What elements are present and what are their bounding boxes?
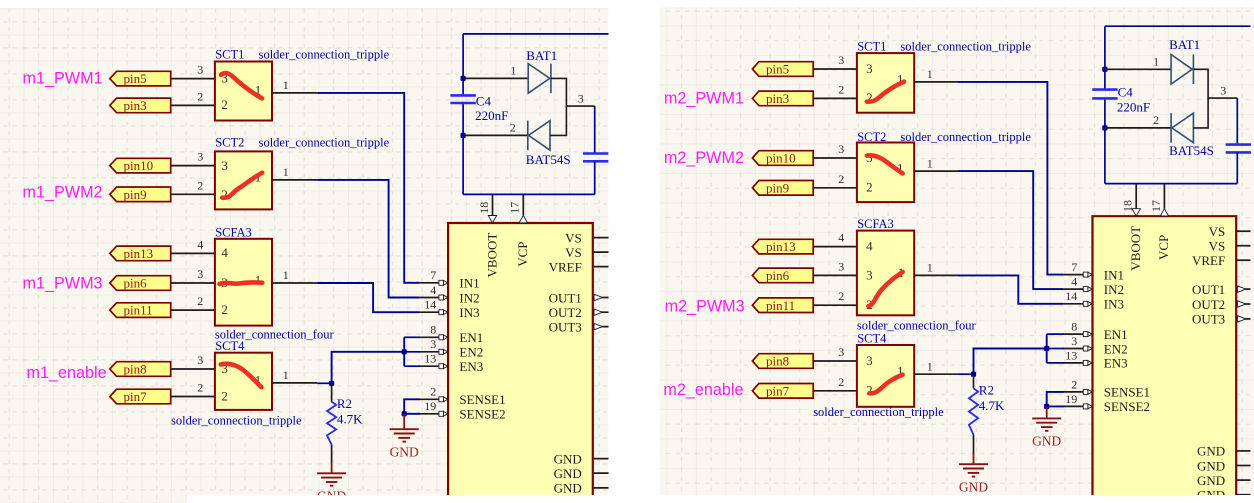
svg-text:R2: R2 [979, 383, 994, 398]
screenshot crop mask bottom right [660, 495, 1254, 503]
junction BAT54S anode [1102, 125, 1107, 130]
wire SENSE1 [1047, 392, 1064, 407]
IC pin 3 EN2 [419, 337, 483, 359]
label SCT2 [857, 130, 886, 144]
IC pin GND [1197, 444, 1250, 459]
svg-text:2: 2 [197, 89, 203, 103]
pin number 1 [283, 165, 289, 179]
label solder_connection_four (left) [215, 328, 335, 342]
port pin13 [752, 239, 813, 254]
wire to BAT54S [1105, 127, 1171, 129]
svg-text:VREF: VREF [1192, 253, 1225, 268]
svg-text:1: 1 [283, 165, 289, 179]
junction EN2 [1044, 346, 1049, 351]
svg-text:m2_enable: m2_enable [663, 381, 743, 399]
wire pin13 to box [171, 252, 215, 254]
svg-text:1: 1 [283, 78, 289, 92]
IC pin OUT3 [549, 319, 609, 334]
IC pin 17 VCP [508, 194, 530, 266]
svg-text:4: 4 [197, 237, 203, 251]
label SCT2 [215, 136, 244, 150]
pin number 1 [510, 64, 516, 78]
svg-text:GND: GND [959, 479, 988, 494]
svg-text:m1_PWM2: m1_PWM2 [23, 184, 103, 202]
IC pin 8 EN1 [419, 323, 483, 345]
solder trace SCT2 [867, 155, 903, 173]
wire pin10 to box [171, 165, 215, 167]
IC pin VREF [549, 259, 609, 274]
wire pin11 to box [171, 309, 215, 311]
svg-text:OUT1: OUT1 [1192, 282, 1225, 297]
pin number 1 [1153, 55, 1159, 69]
IC pin 18 VBOOT [1121, 184, 1143, 271]
wire bottom rail [463, 193, 595, 195]
label BAT1 [1169, 37, 1200, 52]
wire pin13 to box [813, 246, 857, 248]
svg-text:EN3: EN3 [1104, 356, 1128, 371]
solder connection SCT4 [857, 345, 914, 407]
svg-text:3: 3 [838, 345, 844, 359]
svg-text:1: 1 [1153, 55, 1159, 69]
svg-text:EN1: EN1 [1104, 327, 1128, 342]
svg-text:1: 1 [283, 368, 289, 382]
solder connection SCFA3 [857, 231, 914, 316]
svg-text:7: 7 [1071, 260, 1077, 274]
svg-text:C4: C4 [476, 93, 492, 108]
port pin6 [752, 268, 813, 283]
solder connection SCT1 [857, 53, 914, 113]
svg-text:2: 2 [197, 178, 203, 192]
junction R2 [971, 372, 976, 377]
net label m1_PWM2 [23, 184, 103, 202]
label solder_connection_tripple [900, 40, 1031, 54]
svg-text:1: 1 [927, 359, 933, 373]
label solder_connection_tripple [259, 136, 390, 150]
net label m1_PWM3 [23, 275, 103, 293]
svg-text:17: 17 [1149, 200, 1163, 212]
label SCT4 [215, 339, 245, 353]
svg-text:4: 4 [866, 239, 873, 254]
wire BAT1 to node 3 [1193, 69, 1237, 98]
svg-text:VREF: VREF [549, 259, 582, 274]
wire pin8 to box [171, 368, 215, 370]
pin number 2 [838, 375, 844, 389]
net label m2_PWM3 [665, 298, 745, 316]
IC pin VS [565, 230, 608, 245]
SCT4 pin digits [866, 353, 903, 398]
IC pin 3 EN2 [1063, 334, 1128, 356]
svg-text:4: 4 [838, 231, 844, 245]
svg-text:solder_connection_tripple: solder_connection_tripple [900, 130, 1031, 144]
wire SCT1 pin 1 stub [914, 81, 958, 83]
resistor R2 [327, 383, 336, 473]
svg-text:13: 13 [1065, 348, 1077, 362]
svg-text:VS: VS [1209, 224, 1226, 239]
svg-text:4: 4 [1071, 275, 1077, 289]
svg-text:2: 2 [197, 381, 203, 395]
svg-text:pin5: pin5 [766, 62, 789, 77]
svg-text:3: 3 [430, 337, 436, 351]
pin number 3 [197, 353, 203, 367]
wire BAT54S to node 3 [550, 106, 566, 135]
svg-text:2: 2 [430, 385, 436, 399]
port pin9 [110, 187, 171, 202]
svg-text:4.7K: 4.7K [979, 398, 1005, 413]
label R2 [979, 383, 994, 398]
ground R2 [959, 464, 988, 494]
svg-text:solder_connection_tripple: solder_connection_tripple [813, 405, 944, 419]
svg-text:pin10: pin10 [124, 158, 154, 173]
label SCT1 [857, 40, 886, 54]
label SCFA3 [215, 226, 252, 240]
SCT1 pin digits [866, 61, 903, 105]
svg-text:SENSE1: SENSE1 [459, 392, 505, 407]
pin number 3 [838, 345, 844, 359]
wire SCT4 out to R2 node [958, 373, 974, 375]
port pin5 [110, 71, 171, 86]
svg-text:VS: VS [565, 230, 582, 245]
port pin6 [110, 276, 171, 291]
pin number 1 [283, 368, 289, 382]
solder connection SCT1 [215, 62, 272, 121]
svg-text:3: 3 [197, 267, 203, 281]
label BAT54S [526, 152, 571, 167]
wire to BAT1 [463, 77, 528, 79]
svg-text:1: 1 [927, 261, 933, 275]
svg-text:BAT1: BAT1 [1169, 37, 1200, 52]
SCFA3 pin digits [866, 239, 904, 312]
diode BAT1 [528, 64, 551, 94]
svg-text:m2_PWM2: m2_PWM2 [664, 149, 744, 167]
svg-text:VS: VS [1209, 239, 1226, 254]
label R2 [337, 396, 352, 411]
svg-text:3: 3 [838, 53, 844, 67]
svg-text:GND: GND [390, 444, 419, 459]
SCT2 pin digits [221, 158, 261, 202]
svg-text:1: 1 [283, 268, 289, 282]
IC motor driver (left) [448, 223, 593, 495]
solder trace SCT1 [221, 73, 262, 98]
wire bottom rail [1105, 183, 1237, 185]
svg-text:1: 1 [927, 67, 933, 81]
svg-text:SCFA3: SCFA3 [215, 226, 252, 240]
svg-text:m1_PWM1: m1_PWM1 [23, 70, 103, 88]
net label m2_enable [663, 381, 743, 399]
junction BAT1 anode [1102, 67, 1107, 72]
port pin7 [752, 383, 813, 398]
svg-text:pin11: pin11 [124, 303, 153, 318]
wire SCT4 pin 1 stub [914, 373, 958, 375]
diode BAT54S [528, 121, 550, 151]
wire SCT4 out to R2 node [317, 382, 331, 384]
svg-text:pin3: pin3 [766, 91, 789, 106]
wire route to IN3 [958, 275, 1063, 303]
svg-text:3: 3 [1071, 334, 1077, 348]
svg-text:EN3: EN3 [459, 359, 483, 374]
ground SENSE [390, 414, 419, 460]
solder trace SCT4 [870, 375, 903, 394]
wire cap to bottom rail [594, 161, 596, 194]
svg-text:8: 8 [430, 323, 436, 337]
label BAT54S [1169, 143, 1214, 158]
svg-text:2: 2 [838, 82, 844, 96]
wire SCT2 pin 1 stub [272, 179, 317, 181]
svg-text:1: 1 [255, 273, 262, 288]
pin number 3 [838, 53, 844, 67]
pin number 4 [197, 237, 203, 251]
junction EN2 [402, 349, 407, 354]
port pin3 [110, 98, 171, 113]
wire SENSE1 [404, 399, 420, 414]
svg-text:solder_connection_tripple: solder_connection_tripple [900, 40, 1031, 54]
junction R2 [329, 381, 334, 386]
svg-text:VCP: VCP [515, 242, 530, 267]
IC pin 4 IN2 [419, 283, 480, 305]
svg-text:solder_connection_four: solder_connection_four [215, 328, 335, 342]
svg-text:3: 3 [838, 259, 844, 273]
svg-text:BAT54S: BAT54S [526, 152, 571, 167]
svg-text:m1_PWM3: m1_PWM3 [23, 275, 103, 293]
svg-text:3: 3 [197, 353, 203, 367]
svg-text:pin9: pin9 [766, 180, 789, 195]
svg-text:3: 3 [1220, 83, 1226, 97]
SCT1 pin digits [221, 70, 261, 112]
label 4.7K [979, 398, 1005, 413]
port pin11 [752, 298, 813, 313]
wire pin5 to box [813, 68, 857, 70]
IC pin OUT1 [1192, 282, 1251, 297]
IC pin OUT2 [1192, 297, 1251, 312]
junction BAT1 anode [461, 76, 466, 81]
svg-text:SCT4: SCT4 [857, 332, 887, 346]
svg-text:pin3: pin3 [124, 98, 147, 113]
wire route to IN2 [317, 180, 419, 298]
port pin3 [752, 91, 813, 106]
IC motor driver (right) [1093, 216, 1237, 495]
port pin7 [110, 389, 171, 404]
SCFA3 pin digits [221, 245, 261, 317]
wire from R2 node to EN bus [332, 352, 405, 384]
port pin10 [110, 158, 171, 173]
svg-text:IN3: IN3 [1104, 297, 1124, 312]
label solder_connection_tripple (right bottom) [813, 405, 944, 419]
svg-text:2: 2 [838, 289, 844, 303]
capacitor C4 [1092, 90, 1117, 99]
net label m2_PWM2 [664, 149, 744, 167]
pin number 1 [927, 67, 933, 81]
svg-text:solder_connection_tripple: solder_connection_tripple [171, 413, 302, 427]
svg-text:2: 2 [221, 97, 228, 112]
pin number 1 [283, 268, 289, 282]
svg-text:13: 13 [424, 352, 436, 366]
IC pin GND [1197, 488, 1250, 503]
svg-text:solder_connection_tripple: solder_connection_tripple [259, 47, 390, 61]
svg-text:3: 3 [197, 150, 203, 164]
svg-text:GND: GND [1197, 458, 1225, 473]
svg-text:IN2: IN2 [1104, 282, 1124, 297]
pin number 3 [1220, 83, 1226, 97]
svg-text:4.7K: 4.7K [337, 412, 363, 427]
pin number 4 [838, 231, 844, 245]
svg-text:IN3: IN3 [459, 305, 479, 320]
pin number 2 [197, 294, 203, 308]
wire pin6 to box [171, 282, 215, 284]
svg-text:SCT1: SCT1 [857, 40, 886, 54]
wire node 3 down [594, 106, 596, 153]
pin number 2 [838, 82, 844, 96]
solder trace SCT1 [867, 82, 904, 102]
IC pin GND [1197, 473, 1250, 488]
wire EN stub [1047, 333, 1064, 335]
IC pin GND [554, 451, 609, 466]
svg-text:OUT3: OUT3 [549, 319, 582, 334]
solder connection SCFA3 [215, 239, 272, 326]
solder trace SCT4 [221, 364, 262, 387]
svg-text:VBOOT: VBOOT [484, 233, 499, 278]
wire pin7 to box [171, 396, 215, 398]
net label m1_PWM1 [23, 70, 103, 88]
port pin5 [752, 62, 813, 77]
pin number 1 [927, 261, 933, 275]
IC pin 14 IN3 [1063, 289, 1124, 311]
wire left vertical [1104, 26, 1106, 183]
wire EN bus [1046, 334, 1048, 363]
pin number 3 [197, 63, 203, 77]
pin number 1 [283, 78, 289, 92]
pin number 2 [510, 121, 516, 135]
svg-text:17: 17 [508, 202, 522, 214]
label solder_connection_tripple (left bottom) [171, 413, 302, 427]
svg-text:solder_connection_tripple: solder_connection_tripple [259, 136, 390, 150]
IC pin 19 SENSE2 [419, 399, 506, 421]
ground R2 [317, 473, 346, 503]
wire SCT1 pin 1 stub [272, 92, 317, 94]
svg-text:3: 3 [838, 142, 844, 156]
svg-text:3: 3 [866, 61, 873, 76]
svg-text:EN2: EN2 [1104, 341, 1128, 356]
IC pin 4 IN2 [1063, 275, 1124, 297]
svg-text:GND: GND [554, 466, 582, 481]
wire pin7 to box [813, 390, 857, 392]
svg-text:2: 2 [221, 302, 228, 317]
solder connection SCT2 [857, 143, 914, 203]
wire pin9 to box [813, 187, 857, 189]
svg-text:3: 3 [866, 353, 873, 368]
pin number 3 [197, 267, 203, 281]
label solder_connection_tripple [259, 47, 390, 61]
label solder_connection_four (right) [857, 319, 977, 333]
wire BAT54S to node 3 [1193, 98, 1208, 128]
label 220nF [475, 108, 508, 123]
diode BAT1 [1171, 55, 1193, 85]
wire pin6 to box [813, 274, 857, 276]
svg-text:OUT1: OUT1 [549, 290, 582, 305]
svg-text:pin7: pin7 [124, 389, 148, 404]
label 220nF [1117, 100, 1150, 115]
pin number 1 [927, 359, 933, 373]
IC pin 13 EN3 [419, 352, 483, 374]
svg-text:R2: R2 [337, 396, 352, 411]
label SCFA3 [857, 217, 894, 231]
svg-text:GND: GND [1032, 434, 1061, 449]
svg-text:GND: GND [1197, 444, 1225, 459]
wire node 3 down [1236, 98, 1238, 145]
solder connection SCT4 [215, 353, 272, 410]
svg-text:IN1: IN1 [1104, 267, 1124, 282]
screenshot crop mask gutter [609, 0, 660, 503]
wire from R2 node to EN bus [974, 349, 1047, 375]
label solder_connection_tripple [900, 130, 1031, 144]
wire EN bus [403, 337, 405, 366]
IC pin OUT3 [1192, 312, 1251, 327]
svg-text:GND: GND [554, 451, 582, 466]
svg-text:3: 3 [221, 158, 228, 173]
svg-text:pin11: pin11 [766, 298, 795, 313]
wire pin3 to box [171, 104, 215, 106]
svg-text:19: 19 [1065, 392, 1077, 406]
IC pin 2 SENSE1 [419, 385, 506, 407]
wire EN stub [404, 336, 420, 338]
svg-text:solder_connection_four: solder_connection_four [857, 319, 977, 333]
solder trace SCT2 [222, 173, 262, 198]
svg-text:SENSE2: SENSE2 [459, 407, 505, 422]
svg-text:1: 1 [927, 156, 933, 170]
svg-text:19: 19 [424, 399, 436, 413]
svg-text:pin10: pin10 [766, 151, 796, 166]
wire left vertical [462, 34, 464, 195]
IC pin 8 EN1 [1063, 320, 1128, 342]
svg-text:3: 3 [866, 267, 873, 282]
wire pin3 to box [813, 97, 857, 99]
label SCT4 [857, 332, 887, 346]
svg-text:pin6: pin6 [124, 276, 148, 291]
junction SENSE2 [402, 411, 407, 416]
junction BAT54S anode [461, 133, 466, 138]
svg-text:VBOOT: VBOOT [1128, 226, 1143, 271]
port pin8 [110, 362, 171, 377]
IC pin 19 SENSE2 [1063, 392, 1150, 414]
svg-text:18: 18 [477, 202, 491, 214]
wire EN stub [404, 365, 420, 367]
svg-text:2: 2 [838, 172, 844, 186]
SCT2 pin digits [866, 150, 903, 195]
port pin9 [752, 180, 813, 195]
label BAT1 [526, 48, 557, 63]
wire SCFA3 pin 1 stub [914, 274, 958, 276]
wire pin8 to box [813, 360, 857, 362]
svg-text:14: 14 [1065, 289, 1077, 303]
IC pin 13 EN3 [1063, 348, 1128, 370]
svg-text:m2_PWM3: m2_PWM3 [665, 298, 745, 316]
svg-text:OUT2: OUT2 [1192, 297, 1225, 312]
svg-text:2: 2 [221, 388, 228, 403]
port pin13 [110, 246, 171, 261]
wire pin5 to box [171, 78, 215, 80]
svg-text:pin6: pin6 [766, 268, 790, 283]
pin number 3 [578, 91, 584, 105]
svg-text:220nF: 220nF [475, 108, 508, 123]
IC pin OUT2 [549, 305, 609, 320]
svg-text:220nF: 220nF [1117, 100, 1150, 115]
pin number 3 [838, 259, 844, 273]
IC pin GND [1197, 458, 1250, 473]
pin number 3 [197, 150, 203, 164]
pin number 2 [197, 178, 203, 192]
screenshot crop mask bottom left [187, 495, 609, 503]
IC pin 7 IN1 [419, 268, 480, 290]
SCT4 pin digits [221, 361, 261, 404]
pin number 2 [838, 289, 844, 303]
